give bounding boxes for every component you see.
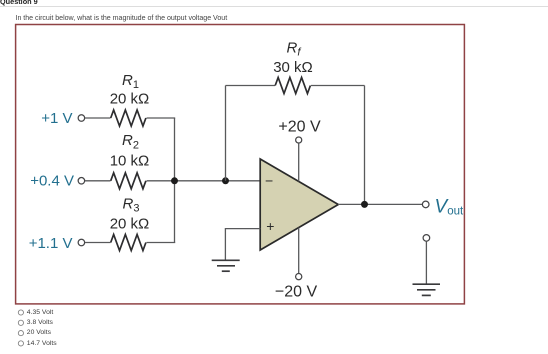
wire bbox=[226, 85, 276, 87]
radio button option 4 bbox=[18, 341, 23, 346]
resistor R2 bbox=[111, 173, 146, 189]
junction output node bbox=[361, 201, 368, 208]
value 20 kOhm (R3) bbox=[110, 216, 150, 233]
pin label minus bbox=[265, 173, 273, 189]
pin label plus bbox=[266, 218, 274, 234]
label +0.4 V bbox=[30, 173, 74, 190]
svg-text:Vout: Vout bbox=[435, 196, 464, 217]
node IN1 terminal bbox=[78, 115, 85, 122]
terminal reference ground bbox=[423, 235, 430, 242]
ground (output reference) bbox=[413, 284, 441, 295]
wire bbox=[85, 117, 111, 119]
value 30 kOhm (Rf) bbox=[273, 59, 313, 76]
op-amp U1 bbox=[260, 159, 338, 250]
label +20 V bbox=[278, 119, 321, 136]
label Rf bbox=[287, 39, 302, 58]
radio button option 2 bbox=[18, 320, 23, 325]
junction inverting-input node bbox=[222, 177, 229, 184]
svg-text:+: + bbox=[266, 218, 274, 234]
label Vout bbox=[435, 196, 464, 217]
wire reference ground bbox=[425, 242, 427, 285]
radio button option 3 bbox=[18, 331, 23, 336]
svg-text:R1: R1 bbox=[122, 72, 139, 91]
resistor Rf bbox=[275, 78, 310, 94]
wire bbox=[85, 180, 111, 182]
wire +20V supply bbox=[298, 143, 300, 181]
svg-text:−: − bbox=[265, 173, 273, 189]
label +1 V bbox=[41, 110, 72, 127]
wire bbox=[147, 242, 176, 244]
svg-text:20 kΩ: 20 kΩ bbox=[110, 216, 150, 233]
resistor R3 bbox=[111, 235, 146, 251]
terminal Vout bbox=[422, 201, 429, 208]
svg-text:R2: R2 bbox=[122, 132, 139, 151]
node IN2 terminal bbox=[78, 178, 85, 185]
label -20 V bbox=[275, 284, 318, 301]
wire noninverting input bbox=[225, 229, 260, 261]
wire -20V supply bbox=[298, 228, 300, 274]
label R2 bbox=[122, 132, 139, 151]
label R1 bbox=[122, 72, 139, 91]
svg-text:+0.4 V: +0.4 V bbox=[30, 173, 74, 190]
value 20 kOhm (R1) bbox=[110, 91, 150, 108]
label +1.1 V bbox=[29, 235, 73, 252]
value 10 kOhm (R2) bbox=[110, 153, 150, 170]
terminal -20V supply bbox=[296, 274, 302, 280]
label R3 bbox=[123, 196, 140, 215]
wire output bbox=[338, 203, 422, 205]
red border frame bbox=[16, 25, 465, 304]
svg-text:Rf: Rf bbox=[287, 39, 302, 58]
svg-text:−20 V: −20 V bbox=[275, 284, 318, 301]
resistor R1 bbox=[111, 110, 146, 126]
svg-text:30 kΩ: 30 kΩ bbox=[273, 59, 313, 76]
svg-text:R3: R3 bbox=[123, 196, 140, 215]
wire feedback left riser bbox=[225, 86, 227, 181]
wire feedback right drop bbox=[364, 86, 366, 205]
wire bbox=[147, 117, 176, 119]
svg-text:20 kΩ: 20 kΩ bbox=[110, 91, 150, 108]
radio button option 1 bbox=[18, 310, 23, 315]
node IN3 terminal bbox=[78, 239, 85, 246]
wire bbox=[147, 180, 261, 182]
wire bbox=[311, 85, 365, 87]
svg-text:+1.1 V: +1.1 V bbox=[29, 235, 73, 252]
svg-text:+20 V: +20 V bbox=[278, 119, 321, 136]
junction summing node bbox=[171, 177, 178, 184]
svg-text:+1 V: +1 V bbox=[41, 110, 72, 127]
wire bus joining R1/R2/R3 bbox=[174, 118, 176, 243]
terminal +20V supply bbox=[296, 137, 302, 143]
ground (noninverting input) bbox=[212, 260, 240, 271]
svg-text:10 kΩ: 10 kΩ bbox=[110, 153, 150, 170]
wire bbox=[85, 242, 111, 244]
